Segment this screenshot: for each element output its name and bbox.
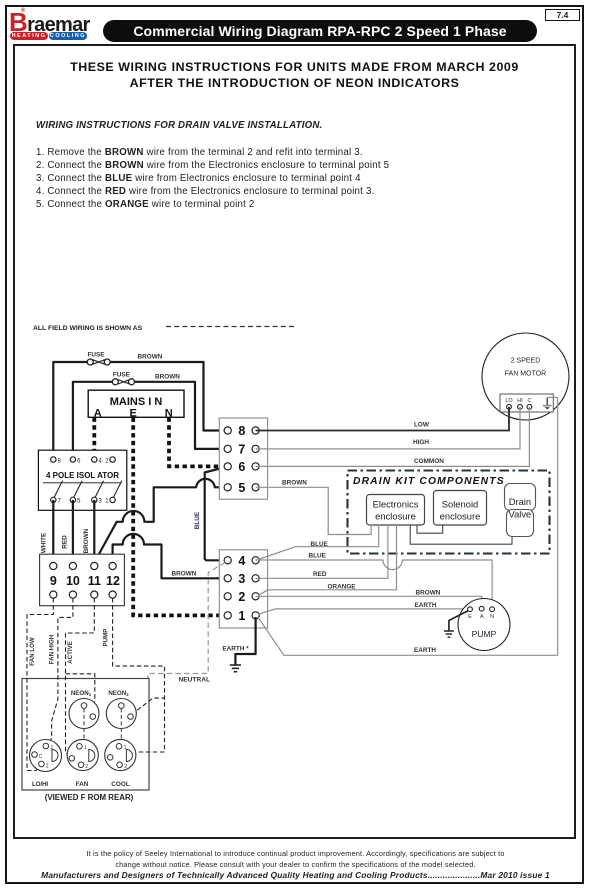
wire fan low terminal 9 to neon board dashed [27, 598, 53, 771]
neon board caption [45, 793, 134, 802]
svg-text:EARTH: EARTH [415, 602, 437, 609]
svg-text:2: 2 [85, 764, 88, 770]
svg-text:9: 9 [50, 574, 57, 588]
wire brown terminal 5 to electronics enclosure [256, 479, 372, 534]
svg-text:BROWN: BROWN [83, 528, 90, 553]
svg-text:2: 2 [124, 764, 127, 770]
svg-text:FUSE: FUSE [113, 371, 131, 378]
svg-text:COMMON: COMMON [414, 458, 444, 465]
wire pump terminal 12 to neon board dashed [103, 598, 165, 752]
svg-text:enclosure: enclosure [375, 510, 416, 521]
svg-text:5: 5 [238, 481, 245, 495]
svg-text:N: N [490, 614, 494, 620]
TB3 pins top [50, 562, 117, 569]
wire electronics to solenoid [417, 525, 443, 534]
isolator switch levers [54, 481, 122, 497]
svg-text:C: C [527, 398, 531, 404]
7.4 box [545, 9, 580, 22]
wire earth terminal 1 to ground [222, 617, 255, 672]
svg-text:RED: RED [62, 535, 69, 549]
solenoid enclosure L1 [434, 491, 487, 526]
fan motor M1 [482, 333, 569, 420]
wire electronics to drain valve [410, 525, 512, 545]
wire high fan motor to terminal 7 [256, 407, 520, 449]
svg-text:BLUE: BLUE [194, 511, 201, 529]
svg-text:6: 6 [238, 460, 245, 474]
wire jumper terminal 11 to terminal 5 with hops [94, 479, 227, 563]
svg-text:HI: HI [517, 398, 522, 404]
wire brown fuse F1 to terminal 8 [108, 354, 228, 431]
svg-text:NEUTRAL: NEUTRAL [179, 677, 211, 684]
electronics enclosure U1 [367, 495, 425, 526]
mains in box [88, 390, 184, 417]
svg-text:EARTH: EARTH [414, 647, 436, 654]
svg-text:Valve: Valve [509, 509, 532, 520]
neon N2 [106, 690, 136, 728]
wire active A dashed to isolator [92, 418, 96, 460]
wire brown mains to fuse F2 [73, 382, 115, 460]
svg-text:enclosure: enclosure [440, 510, 481, 521]
svg-text:2: 2 [238, 590, 245, 604]
node A [94, 408, 102, 420]
svg-text:RED: RED [313, 571, 327, 578]
wire brown mains to fuse F1 [53, 362, 90, 460]
wire blue terminal 4 to pump N with hop [256, 552, 493, 606]
wire brown terminal 12 to terminal 3 with hop [113, 534, 228, 578]
svg-text:Electronics: Electronics [373, 498, 419, 509]
svg-text:FUSE: FUSE [88, 352, 106, 359]
Braemar logo [9, 7, 90, 38]
wire fan high terminal 10 to neon board dashed [49, 598, 73, 745]
svg-text:NEON1: NEON1 [71, 690, 92, 697]
wire blue electronics to terminal 4 [258, 525, 379, 560]
svg-text:2 SPEED: 2 SPEED [511, 358, 541, 365]
wire earth terminal 1 to pump E [259, 602, 469, 614]
svg-text:1: 1 [124, 745, 127, 751]
heading text [20, 59, 569, 91]
svg-text:E: E [468, 614, 472, 620]
svg-text:1: 1 [238, 609, 245, 623]
fuse F1 [87, 352, 110, 365]
svg-text:Drain: Drain [509, 496, 531, 507]
switch socket COOL [105, 739, 136, 787]
logo pills [10, 32, 48, 41]
svg-text:EARTH *: EARTH * [222, 645, 249, 652]
svg-text:ORANGE: ORANGE [328, 583, 357, 590]
svg-text:2: 2 [46, 763, 49, 769]
pump pins E A N [468, 606, 495, 620]
svg-text:BLUE: BLUE [311, 541, 329, 548]
svg-text:FAN MOTOR: FAN MOTOR [505, 371, 546, 378]
svg-text:8: 8 [238, 424, 245, 438]
wire blue terminal 6 to terminal 4 [194, 466, 228, 560]
pump P1 [458, 599, 510, 651]
TB1 pins left 8 7 6 5 [224, 427, 231, 491]
title bar [103, 20, 537, 42]
switch socket LO/HI [30, 740, 62, 788]
svg-text:LO: LO [505, 398, 512, 404]
svg-text:1: 1 [51, 745, 54, 751]
wire white isolator 7 to terminal 9 [41, 500, 54, 566]
svg-text:LOW: LOW [414, 422, 430, 429]
svg-text:FAN HIGH: FAN HIGH [49, 634, 56, 664]
svg-text:4 POLE ISOL ATOR: 4 POLE ISOL ATOR [46, 471, 119, 480]
italic instruction [36, 120, 322, 131]
svg-text:12: 12 [106, 574, 120, 588]
svg-text:LO/HI: LO/HI [32, 781, 48, 788]
wire earth fan motor to terminal 1 [258, 398, 558, 656]
wire neutral terminal 4 to neon board dashed [122, 563, 226, 746]
wire neutral N dashed to terminal 6 [169, 418, 228, 467]
svg-text:PUMP: PUMP [472, 629, 497, 639]
wire neon N1 to fan switch dashed [80, 708, 84, 744]
TB2 pins left 4 3 2 1 [224, 557, 231, 619]
wire red electronics to terminal 3 [256, 525, 388, 579]
neon board box [22, 679, 149, 791]
svg-text:COOL: COOL [111, 781, 130, 788]
wire orange electronics to terminal 2 [258, 525, 396, 596]
svg-text:4: 4 [238, 554, 245, 568]
svg-text:PUMP: PUMP [103, 629, 110, 647]
svg-text:3: 3 [238, 572, 245, 586]
TB3 pins bottom [50, 591, 117, 598]
svg-text:BROWN: BROWN [416, 590, 441, 597]
wire common fan motor to terminal 6 [256, 407, 530, 467]
svg-text:ACTIVE: ACTIVE [67, 641, 74, 664]
svg-text:1: 1 [84, 745, 87, 751]
wire low fan motor to terminal 8 [256, 407, 509, 431]
fan motor pins LO HI C [507, 404, 532, 409]
TB1 pins right 8 7 6 5 [252, 427, 259, 491]
fan motor earth symbol [543, 398, 552, 410]
drain valve V1 [505, 484, 536, 537]
svg-text:HIGH: HIGH [413, 439, 429, 446]
svg-text:11: 11 [88, 574, 101, 588]
terminal strip TB3 9 10 11 12 [40, 554, 125, 606]
legend text: all field wiring [33, 325, 143, 332]
isolator SW1 box 4 pole [38, 450, 126, 510]
svg-text:Solenoid: Solenoid [442, 498, 479, 509]
svg-text:DRAIN KIT COMPONENTS: DRAIN KIT COMPONENTS [353, 476, 505, 487]
wire earth E dashed to terminal 1 [133, 418, 228, 616]
fan motor terminal box LO HI C [500, 394, 553, 412]
node E [130, 408, 137, 420]
numbered list [36, 146, 389, 211]
svg-text:FAN: FAN [76, 781, 89, 788]
wire brown isolator 3 to terminal 11 [83, 500, 94, 566]
svg-text:BROWN: BROWN [138, 354, 163, 361]
node N [165, 408, 173, 420]
TB2 pins right 4 3 2 1 [252, 557, 259, 619]
wire brown fuse F2 to terminal 7 [132, 374, 228, 449]
svg-text:FAN LOW: FAN LOW [29, 637, 36, 666]
svg-text:10: 10 [66, 574, 80, 588]
svg-text:7: 7 [238, 442, 245, 456]
svg-text:WHITE: WHITE [41, 532, 48, 553]
footer text [20, 849, 571, 870]
svg-text:(VIEWED F ROM REAR): (VIEWED F ROM REAR) [45, 793, 134, 802]
svg-text:BLUE: BLUE [309, 552, 327, 559]
fuse F2 [112, 371, 134, 384]
drain kit components dashed box [348, 471, 550, 554]
wire red isolator 5 to terminal 10 [62, 500, 73, 566]
pump earth wire and ground [444, 611, 469, 638]
svg-text:A: A [480, 614, 484, 620]
svg-text:BROWN: BROWN [282, 479, 307, 486]
terminal strip TB2 4 3 2 1 [219, 550, 267, 628]
neon N1 [69, 690, 99, 728]
switch socket FAN [67, 739, 98, 787]
terminal strip TB1 8 7 6 5 [219, 418, 267, 499]
svg-text:BROWN: BROWN [172, 571, 197, 578]
svg-text:NEON2: NEON2 [108, 690, 129, 697]
svg-text:ALL FIELD WIRING IS SHOWN AS: ALL FIELD WIRING IS SHOWN AS [33, 325, 143, 332]
svg-text:C: C [39, 754, 43, 760]
wire brown terminal 2 to pump A [256, 590, 482, 607]
wire neon N2 to cool switch dashed [120, 708, 122, 743]
isolator top terminals 8 6 4 2 [51, 457, 116, 465]
svg-text:BROWN: BROWN [155, 374, 180, 381]
wire active terminal 11 to neon board dashed [66, 598, 95, 758]
svg-text:MAINS I N: MAINS I N [110, 396, 163, 408]
isolator bottom terminals 7 5 3 1 [51, 497, 116, 505]
legend dashed sample wire [166, 326, 296, 328]
